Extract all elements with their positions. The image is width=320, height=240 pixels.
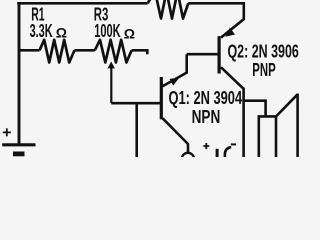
wire R3 output stub with hook [132,50,148,54]
wire top rail right [188,2,244,5]
transistor Q1 emitter arrowhead [170,78,180,86]
resistor R3 [95,40,132,63]
wire middle drop [135,102,138,158]
svg-text:Q2: 2N 3906: Q2: 2N 3906 [228,41,299,61]
battery B1 plus sign [3,128,11,136]
transistor Q2 base bar [218,36,221,73]
transistor Q2 collector diagonal [221,67,244,89]
wire R1 feed [19,49,40,52]
resistor R2 (top, cropped) [148,0,189,19]
battery B1 negative plate [13,151,25,156]
battery B1 positive plate [2,143,35,146]
potentiometer wiper arrowhead [108,62,115,69]
potentiometer wiper shaft R3 [110,67,112,103]
svg-text:Ω: Ω [56,25,67,41]
wire right rail down [242,88,245,158]
speaker SP1 frame [258,115,277,157]
wire speaker feed [244,101,266,118]
svg-text:Q1: 2N 3904: Q1: 2N 3904 [169,88,243,108]
capacitor C1 minus sign [231,143,236,145]
wire left rail [18,2,21,145]
wire between R1 and R3 [75,49,95,52]
microphone M1 circle (cropped) [182,153,194,165]
transistor Q2 emitter wire from top rail [221,2,244,38]
svg-text:100K: 100K [94,21,120,41]
capacitor C1 curved negative plate [225,147,231,158]
svg-text:PNP: PNP [252,60,275,80]
speaker SP1 cone [276,94,298,158]
wire Q2 base [187,53,218,56]
transistor Q1 collector diagonal [163,118,188,152]
transistor Q2 emitter arrowhead [225,28,235,37]
resistor R1 [40,40,75,63]
transistor Q1 emitter diagonal and wire up to Q2 base [163,54,187,86]
capacitor C1 positive plate [216,149,219,158]
svg-text:NPN: NPN [192,107,221,127]
capacitor C1 plus sign [203,143,209,149]
wire top rail left [17,2,147,5]
transistor Q1 base bar [160,77,163,119]
wire Q1 base [111,102,160,105]
svg-text:3.3K: 3.3K [30,21,53,41]
svg-text:Ω: Ω [124,25,135,41]
